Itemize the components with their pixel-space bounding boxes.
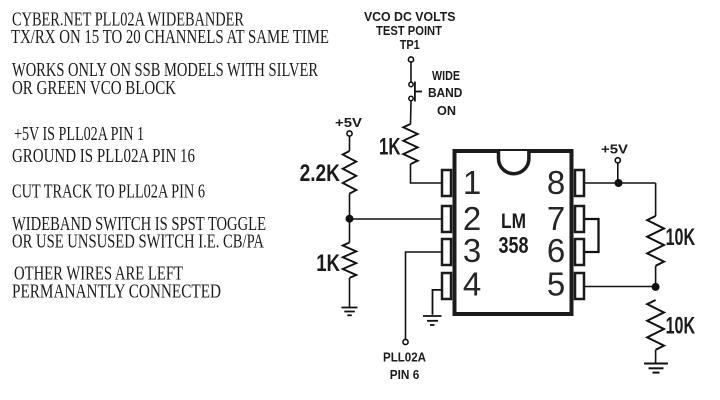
svg-text:3: 3 <box>463 232 481 269</box>
svg-text:OR GREEN VCO BLOCK: OR GREEN VCO BLOCK <box>12 78 176 99</box>
svg-text:5: 5 <box>547 265 565 302</box>
wire junction to 1K <box>349 219 351 243</box>
node pin8/+5V <box>615 179 623 187</box>
svg-text:6: 6 <box>547 232 565 269</box>
svg-text:+5V: +5V <box>335 115 362 130</box>
power +5V (left) <box>335 115 362 136</box>
svg-text:PERMANANTLY CONNECTED: PERMANANTLY CONNECTED <box>12 282 221 303</box>
svg-text:PIN 6: PIN 6 <box>390 367 420 382</box>
svg-text:PLL02A: PLL02A <box>383 350 427 365</box>
svg-text:8: 8 <box>547 164 565 201</box>
resistor 1K (left branch) <box>343 243 357 278</box>
svg-text:TEST POINT: TEST POINT <box>376 23 442 38</box>
svg-text:TX/RX ON 15 TO 20 CHANNELS AT: TX/RX ON 15 TO 20 CHANNELS AT SAME TIME <box>11 27 329 48</box>
wire R to pin 1 <box>411 164 442 183</box>
wire TP1 to switch <box>410 62 412 82</box>
pin 6 box <box>575 239 584 265</box>
svg-text:1K: 1K <box>316 250 340 277</box>
svg-text:1K: 1K <box>379 134 401 161</box>
svg-text:VCO DC VOLTS: VCO DC VOLTS <box>364 9 456 24</box>
pin 3 box <box>442 239 451 265</box>
pin 5 box <box>575 273 584 299</box>
wire 10K to ground <box>655 350 657 363</box>
svg-text:358: 358 <box>499 232 529 258</box>
label WIDE BAND ON <box>428 68 463 118</box>
svg-text:4: 4 <box>463 265 481 302</box>
resistor 2.2K <box>343 151 357 194</box>
svg-text:GROUND IS PLL02A PIN 16: GROUND IS PLL02A PIN 16 <box>12 146 195 167</box>
svg-text:10K: 10K <box>666 313 696 340</box>
svg-text:2.2K: 2.2K <box>300 160 341 187</box>
label LM 358 <box>499 209 529 258</box>
node junction (divider to pin 2) <box>346 215 354 223</box>
wire pins 7-6 feedback <box>585 219 599 252</box>
resistor 10K (upper) <box>647 216 664 266</box>
pin 7 box <box>575 206 584 232</box>
pin 4 box <box>442 273 451 299</box>
ground (pin 4) <box>423 316 442 325</box>
terminal PLL02A pin 6 <box>403 339 408 344</box>
svg-text:1: 1 <box>463 164 481 201</box>
svg-text:+5V: +5V <box>601 142 628 157</box>
wire pin 3 to PLL02A pin 6 <box>406 252 442 339</box>
svg-text:WIDE: WIDE <box>432 68 460 83</box>
wire switch to R 1K <box>410 101 413 124</box>
switch S1 wideband <box>409 82 422 102</box>
power +5V (right) <box>601 142 628 163</box>
wire 2.2K to junction <box>349 194 351 219</box>
svg-text:OR USE UNSUSED SWITCH I.E. CB/: OR USE UNSUSED SWITCH I.E. CB/PA <box>12 232 264 253</box>
wire pin 4 to ground <box>433 290 442 315</box>
test point TP1 terminal <box>408 57 413 62</box>
wire pin 8 to +5V node <box>585 182 656 184</box>
wire 1K to ground <box>349 278 351 307</box>
op-amp U1 LM358 body <box>455 151 572 314</box>
wire +5V drop <box>617 163 619 183</box>
svg-text:ON: ON <box>437 103 456 118</box>
wire 10K to node <box>655 266 657 287</box>
ground (left branch) <box>342 308 358 316</box>
label PLL02A PIN 6 <box>383 350 427 383</box>
resistor 1K (switch branch) <box>403 124 417 164</box>
svg-text:LM: LM <box>501 209 526 233</box>
svg-text:10K: 10K <box>666 224 696 251</box>
wire junction to pin 2 <box>350 218 442 220</box>
svg-text:BAND: BAND <box>428 85 463 100</box>
pin 2 box <box>442 206 451 232</box>
pin 8 box <box>575 170 584 196</box>
svg-text:+5V IS PLL02A PIN 1: +5V IS PLL02A PIN 1 <box>14 124 144 145</box>
wire node to 10K <box>655 183 657 216</box>
label VCO DC VOLTS TEST POINT TP1 <box>364 9 456 52</box>
node pin5 divider <box>652 283 660 291</box>
wire +5V to 2.2K <box>349 136 351 151</box>
resistor 10K (lower) <box>647 300 664 350</box>
wire pin 5 to node <box>585 286 656 288</box>
svg-text:CUT TRACK TO PLL02A PIN 6: CUT TRACK TO PLL02A PIN 6 <box>12 182 205 203</box>
svg-text:TP1: TP1 <box>400 37 420 52</box>
notch <box>499 151 529 174</box>
pin 1 box <box>442 170 451 196</box>
ground (right branch) <box>644 364 668 373</box>
